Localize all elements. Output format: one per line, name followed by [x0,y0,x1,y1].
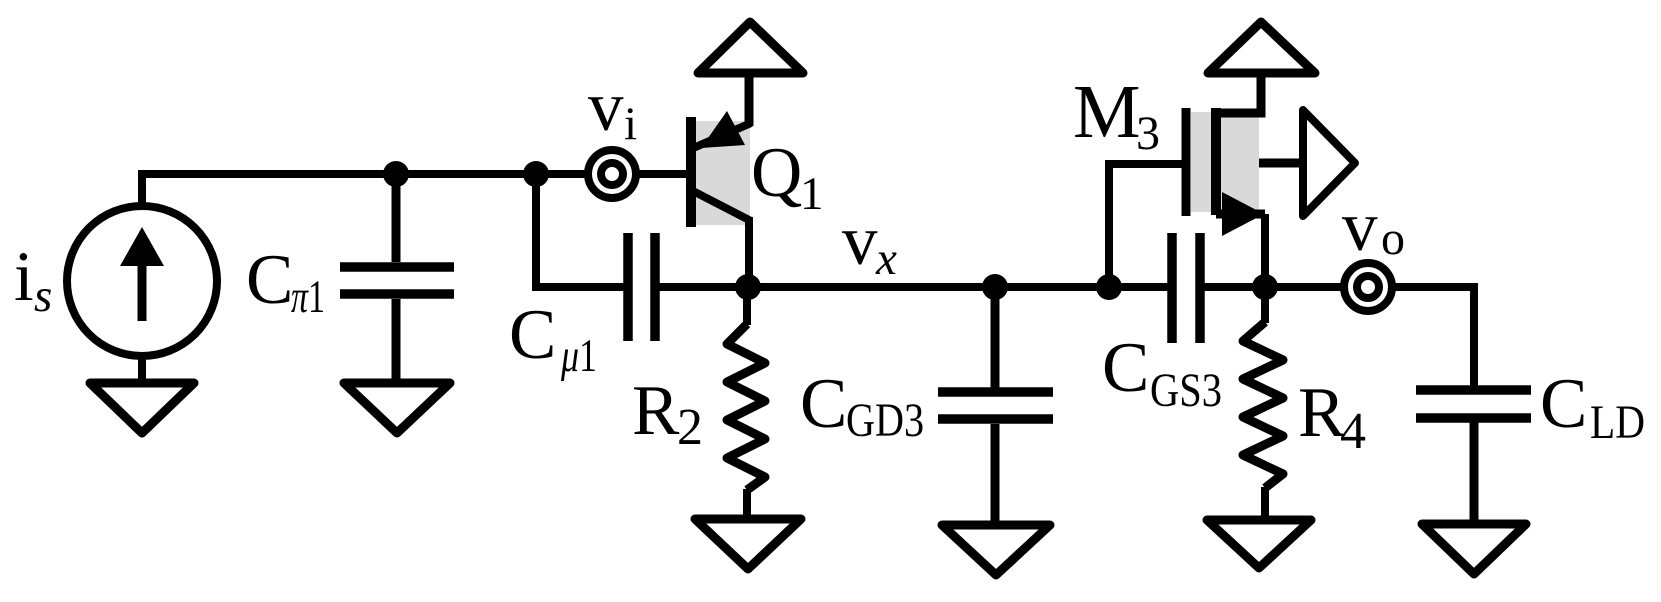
ground under R2 [695,519,801,569]
ground under Cpi1 [344,383,450,433]
wire output rail [1204,283,1478,291]
node vx junction [735,274,761,300]
svg-text:i: i [624,98,637,150]
svg-text:o: o [1381,212,1405,265]
svg-text:x: x [875,233,897,285]
label CGD3 [800,365,924,447]
ground under CLD [1422,524,1526,574]
svg-text:v: v [588,68,624,146]
resistor R2 [727,287,765,523]
wire input branch down to Cmu1 [536,174,624,287]
svg-text:3: 3 [1136,107,1160,160]
svg-text:C: C [509,296,556,374]
node dot at CGD3 [982,274,1008,300]
svg-text:C: C [246,241,293,319]
node dot at M3 gate branch [1096,274,1122,300]
probe vo [1344,263,1392,311]
current source i_s [67,170,217,387]
svg-text:R: R [632,372,680,450]
svg-text:Q: Q [751,134,802,212]
svg-text:C: C [1540,365,1587,443]
svg-text:s: s [34,270,52,322]
wire mid rail [748,283,1168,291]
label R4 [1298,374,1366,460]
probe vi [588,150,636,198]
capacitor CGD3 [938,287,1053,529]
node dot input branch [523,161,549,187]
label Cpi1 [246,241,325,323]
label vo [1342,188,1405,266]
body triangle of M3 [1303,110,1355,216]
ground under current source [90,383,194,433]
svg-text:μ1: μ1 [560,330,597,382]
VDD symbol above Q1 [698,22,803,73]
svg-text:GS3: GS3 [1150,364,1222,417]
label CLD [1540,365,1645,449]
wire top rail [138,170,693,178]
label M3 [1073,70,1160,160]
svg-text:i: i [14,238,34,316]
svg-text:R: R [1298,374,1346,452]
svg-text:C: C [800,365,847,443]
wire M3 gate [1109,164,1183,291]
svg-text:π1: π1 [291,271,325,323]
transistor Q1 [691,69,751,291]
capacitor Cpi1 [340,174,454,387]
capacitor CLD [1416,287,1531,528]
node dot at Cpi1 [383,161,409,187]
svg-text:v: v [1342,188,1378,266]
svg-text:2: 2 [677,399,703,456]
label R2 [632,372,703,456]
svg-text:4: 4 [1340,403,1366,460]
mosfet M3 [1186,73,1303,291]
svg-text:C: C [1102,329,1149,407]
VDD symbol above M3 [1208,22,1315,73]
label vx [842,202,897,285]
label is [14,238,52,322]
svg-text:LD: LD [1590,396,1645,449]
svg-text:GD3: GD3 [846,394,924,447]
label CGS3 [1102,329,1222,417]
node dot at R4 [1252,274,1278,300]
label vi [588,68,637,150]
svg-text:M: M [1073,70,1141,154]
svg-text:1: 1 [800,168,824,220]
capacitor Cmu1 [628,233,750,341]
label Cmu1 [509,296,597,382]
label Q1 [751,134,824,220]
svg-text:v: v [842,202,878,280]
resistor R4 [1243,287,1283,524]
capacitor CGS3 [1172,233,1200,343]
ground under CGD3 [942,525,1050,575]
ground under R4 [1207,520,1311,568]
